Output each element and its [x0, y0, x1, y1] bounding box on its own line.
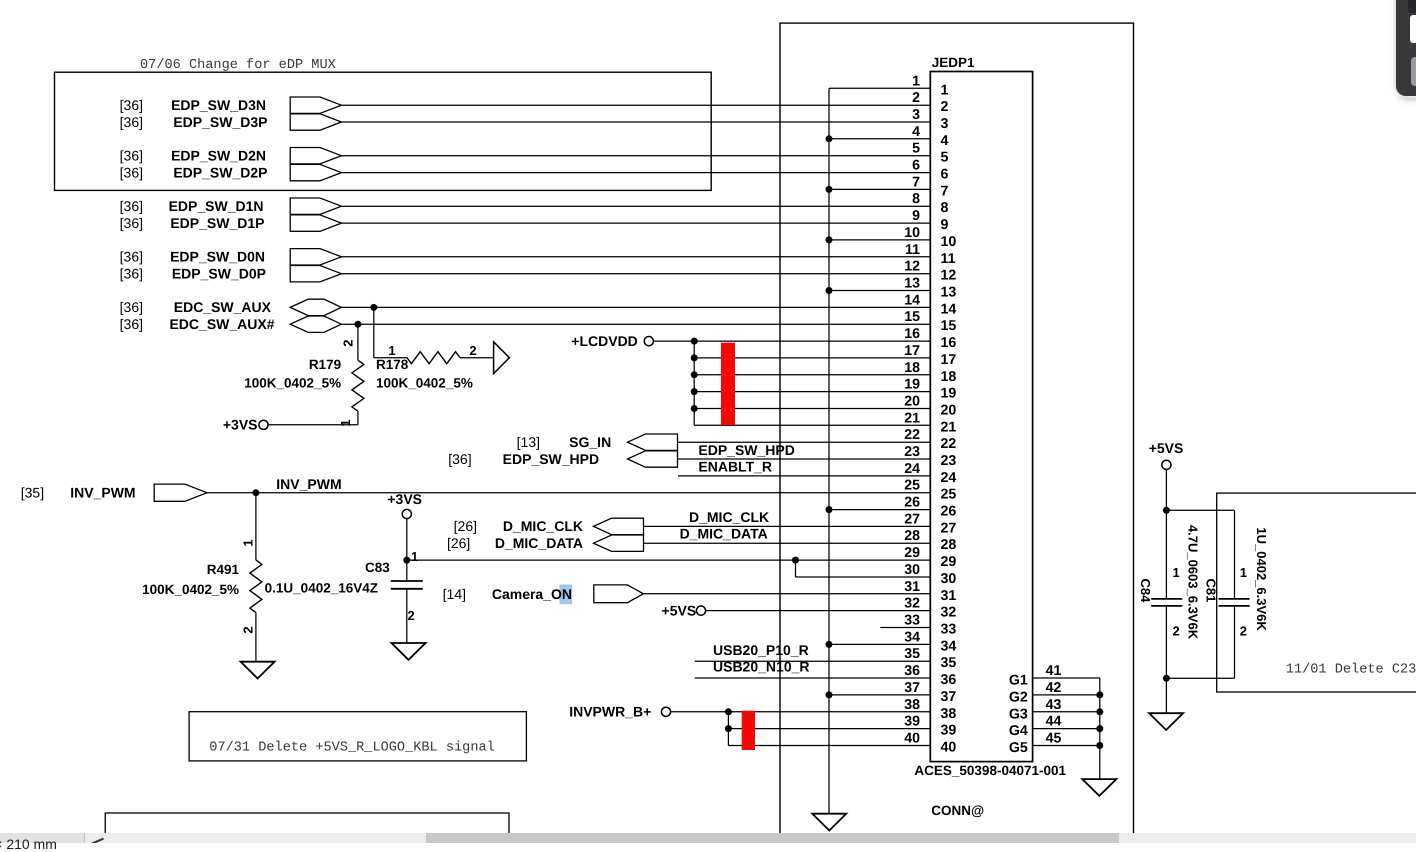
svg-text:25: 25	[904, 478, 920, 494]
svg-text:26: 26	[941, 504, 957, 520]
svg-text:14: 14	[904, 292, 920, 308]
svg-text:G2: G2	[1009, 689, 1028, 705]
svg-text:27: 27	[904, 511, 920, 527]
svg-text:[36]: [36]	[448, 451, 471, 467]
svg-text:INV_PWM: INV_PWM	[70, 485, 135, 501]
svg-text:D_MIC_CLK: D_MIC_CLK	[689, 509, 769, 525]
svg-text:R178: R178	[376, 357, 409, 372]
svg-text:[36]: [36]	[120, 299, 143, 315]
svg-text:2: 2	[408, 608, 415, 623]
svg-text:+LCDVDD: +LCDVDD	[571, 333, 638, 349]
svg-text:35: 35	[941, 655, 957, 671]
svg-text:39: 39	[941, 723, 957, 739]
svg-text:24: 24	[941, 470, 957, 486]
svg-text:EDP_SW_D0N: EDP_SW_D0N	[170, 249, 265, 265]
svg-text:[26]: [26]	[454, 518, 477, 534]
svg-text:EDP_SW_D1P: EDP_SW_D1P	[170, 215, 264, 231]
svg-text:2: 2	[469, 343, 476, 358]
svg-text:[36]: [36]	[120, 97, 143, 113]
svg-text:3: 3	[941, 116, 949, 132]
svg-text:11/01 Delete C23: 11/01 Delete C23	[1286, 662, 1416, 677]
svg-text:4.7U_0603_6.3V6K: 4.7U_0603_6.3V6K	[1185, 525, 1200, 640]
svg-text:1: 1	[388, 343, 395, 358]
svg-text:ACES_50398-04071-001: ACES_50398-04071-001	[914, 763, 1066, 778]
svg-text:EDP_SW_D2P: EDP_SW_D2P	[173, 164, 267, 180]
svg-text:8: 8	[912, 191, 920, 207]
svg-text:EDP_SW_D3P: EDP_SW_D3P	[173, 114, 267, 130]
svg-text:+3VS: +3VS	[387, 491, 422, 507]
svg-text:24: 24	[904, 461, 920, 477]
svg-text:10: 10	[941, 234, 957, 250]
svg-text:07/06 Change for eDP MUX: 07/06 Change for eDP MUX	[140, 58, 336, 73]
svg-text:16: 16	[941, 335, 957, 351]
svg-text:1: 1	[411, 549, 418, 564]
svg-text:14: 14	[941, 301, 957, 317]
svg-text:9: 9	[912, 208, 920, 224]
svg-text:1U_0402_6.3V6K: 1U_0402_6.3V6K	[1254, 527, 1269, 631]
svg-text:40: 40	[941, 740, 957, 756]
svg-text:6: 6	[941, 167, 949, 183]
svg-text:INV_PWM: INV_PWM	[276, 476, 341, 492]
svg-text:26: 26	[904, 495, 920, 511]
svg-text:C83: C83	[365, 560, 390, 575]
svg-text:38: 38	[904, 697, 920, 713]
svg-text:ENABLT_R: ENABLT_R	[698, 458, 772, 474]
svg-text:33: 33	[941, 622, 957, 638]
svg-text:CONN@: CONN@	[931, 803, 984, 818]
svg-text:[36]: [36]	[120, 249, 143, 265]
svg-text:20: 20	[941, 403, 957, 419]
svg-text:[36]: [36]	[120, 266, 143, 282]
svg-text:1: 1	[241, 539, 256, 546]
svg-text:43: 43	[1046, 697, 1062, 713]
svg-text:44: 44	[1046, 714, 1062, 730]
svg-text:+5VS: +5VS	[662, 602, 697, 618]
svg-text:+5VS: +5VS	[1149, 440, 1184, 456]
svg-text:13: 13	[904, 276, 920, 292]
svg-text:34: 34	[904, 629, 920, 645]
svg-text:29: 29	[941, 554, 957, 570]
svg-text:2: 2	[341, 339, 356, 346]
svg-text:INVPWR_B+: INVPWR_B+	[569, 703, 651, 719]
svg-text:Camera_ON: Camera_ON	[492, 586, 572, 602]
svg-text:38: 38	[941, 706, 957, 722]
svg-text:30: 30	[941, 571, 957, 587]
svg-text:100K_0402_5%: 100K_0402_5%	[244, 376, 341, 391]
svg-text:9: 9	[941, 217, 949, 233]
svg-text:[36]: [36]	[120, 148, 143, 164]
svg-text:[36]: [36]	[120, 114, 143, 130]
svg-text:G1: G1	[1009, 673, 1028, 689]
svg-text:22: 22	[941, 436, 957, 452]
svg-text:[36]: [36]	[120, 164, 143, 180]
svg-text:3: 3	[912, 107, 920, 123]
svg-text:12: 12	[941, 268, 957, 284]
svg-text:39: 39	[904, 714, 920, 730]
svg-text:11: 11	[941, 251, 956, 267]
svg-text:18: 18	[941, 369, 957, 385]
svg-text:31: 31	[941, 588, 957, 604]
svg-text:SG_IN: SG_IN	[569, 434, 611, 450]
svg-text:100K_0402_5%: 100K_0402_5%	[142, 582, 239, 597]
svg-text:10: 10	[904, 225, 920, 241]
svg-text:C84: C84	[1138, 579, 1153, 604]
svg-text:EDC_SW_AUX: EDC_SW_AUX	[174, 299, 272, 315]
svg-text:EDP_SW_D1N: EDP_SW_D1N	[169, 198, 264, 214]
svg-text:33: 33	[904, 613, 920, 629]
svg-text:1: 1	[1240, 565, 1247, 580]
svg-text:17: 17	[941, 352, 957, 368]
svg-text:37: 37	[904, 680, 920, 696]
svg-text:[36]: [36]	[120, 198, 143, 214]
svg-text:28: 28	[904, 528, 920, 544]
svg-text:[14]: [14]	[443, 586, 466, 602]
svg-text:15: 15	[904, 309, 920, 325]
svg-text:41: 41	[1046, 663, 1062, 679]
svg-text:45: 45	[1046, 731, 1062, 747]
svg-text:2: 2	[1240, 624, 1247, 639]
svg-text:22: 22	[904, 427, 920, 443]
svg-text:0.1U_0402_16V4Z: 0.1U_0402_16V4Z	[265, 581, 378, 596]
svg-text:G5: G5	[1009, 740, 1028, 756]
svg-text:30: 30	[904, 562, 920, 578]
svg-text:2: 2	[912, 90, 920, 106]
svg-text:23: 23	[904, 444, 920, 460]
svg-text:17: 17	[904, 343, 920, 359]
svg-text:29: 29	[904, 545, 920, 561]
svg-text:32: 32	[941, 605, 957, 621]
svg-text:40: 40	[904, 731, 920, 747]
svg-text:[36]: [36]	[120, 316, 143, 332]
svg-text:4: 4	[941, 133, 949, 149]
svg-text:16: 16	[904, 326, 920, 342]
svg-text:32: 32	[904, 596, 920, 612]
svg-text:100K_0402_5%: 100K_0402_5%	[376, 376, 473, 391]
svg-text:G3: G3	[1009, 706, 1028, 722]
svg-text:G4: G4	[1009, 723, 1028, 739]
svg-text:7: 7	[941, 183, 949, 199]
svg-text:2: 2	[1173, 624, 1180, 639]
svg-text:5: 5	[912, 141, 920, 157]
svg-text:EDP_SW_HPD: EDP_SW_HPD	[503, 451, 599, 467]
svg-text:2: 2	[241, 626, 256, 633]
svg-text:18: 18	[904, 360, 920, 376]
svg-text:11: 11	[905, 242, 920, 258]
svg-text:6: 6	[912, 158, 920, 174]
svg-text:27: 27	[941, 520, 957, 536]
svg-text:20: 20	[904, 394, 920, 410]
svg-text:EDP_SW_D0P: EDP_SW_D0P	[172, 266, 266, 282]
svg-text:35: 35	[904, 646, 920, 662]
svg-text:31: 31	[904, 579, 920, 595]
svg-text:EDP_SW_HPD: EDP_SW_HPD	[698, 442, 794, 458]
svg-text:21: 21	[941, 419, 957, 435]
svg-text:5: 5	[941, 150, 949, 166]
svg-text:07/31 Delete +5VS_R_LOGO_KBL s: 07/31 Delete +5VS_R_LOGO_KBL signal	[209, 741, 495, 756]
svg-text:12: 12	[904, 259, 920, 275]
svg-text:EDP_SW_D3N: EDP_SW_D3N	[171, 97, 266, 113]
svg-text:36: 36	[941, 672, 957, 688]
svg-text:2: 2	[941, 99, 949, 115]
svg-text:EDP_SW_D2N: EDP_SW_D2N	[171, 148, 266, 164]
svg-text:+3VS: +3VS	[223, 417, 258, 433]
svg-text:21: 21	[904, 410, 920, 426]
svg-text:USB20_P10_R: USB20_P10_R	[713, 642, 809, 658]
svg-text:36: 36	[904, 663, 920, 679]
svg-text:23: 23	[941, 453, 957, 469]
svg-text:1: 1	[1173, 565, 1180, 580]
svg-text:28: 28	[941, 537, 957, 553]
svg-text:42: 42	[1046, 680, 1062, 696]
svg-text:15: 15	[941, 318, 957, 334]
svg-text:1: 1	[912, 73, 920, 89]
svg-text:1: 1	[338, 419, 353, 426]
svg-text:25: 25	[941, 487, 957, 503]
svg-text:USB20_N10_R: USB20_N10_R	[713, 659, 810, 675]
svg-text:[35]: [35]	[21, 485, 44, 501]
svg-text:R491: R491	[207, 562, 240, 577]
svg-text:[36]: [36]	[120, 215, 143, 231]
svg-text:[26]: [26]	[447, 535, 470, 551]
svg-text:8: 8	[941, 200, 949, 216]
svg-text:EDC_SW_AUX#: EDC_SW_AUX#	[169, 316, 274, 332]
svg-text:37: 37	[941, 689, 957, 705]
svg-text:D_MIC_CLK: D_MIC_CLK	[503, 518, 583, 534]
svg-text:7: 7	[912, 174, 920, 190]
svg-text:D_MIC_DATA: D_MIC_DATA	[680, 526, 768, 542]
svg-text:13: 13	[941, 285, 957, 301]
svg-text:R179: R179	[309, 357, 341, 372]
svg-text:1: 1	[941, 82, 949, 98]
svg-text:19: 19	[904, 377, 920, 393]
svg-text:C81: C81	[1204, 579, 1219, 603]
svg-text:34: 34	[941, 638, 957, 654]
svg-text:19: 19	[941, 386, 957, 402]
svg-text:4: 4	[912, 124, 920, 140]
svg-text:JEDP1: JEDP1	[932, 55, 975, 70]
svg-text:D_MIC_DATA: D_MIC_DATA	[495, 535, 583, 551]
svg-text:[13]: [13]	[517, 434, 540, 450]
